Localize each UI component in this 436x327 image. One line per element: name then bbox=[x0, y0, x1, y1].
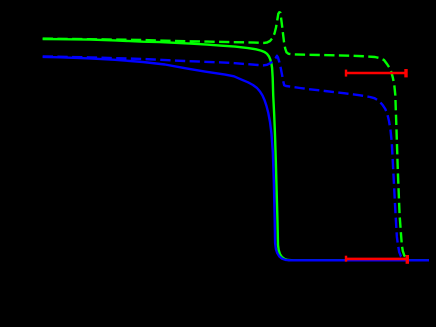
green solid curve bbox=[43, 39, 429, 260]
red error bar bottom bbox=[346, 255, 407, 264]
green dashed curve bbox=[43, 12, 409, 259]
red error bar top bbox=[346, 69, 406, 77]
blue dashed curve bbox=[43, 56, 406, 260]
blue solid curve bbox=[43, 57, 429, 260]
